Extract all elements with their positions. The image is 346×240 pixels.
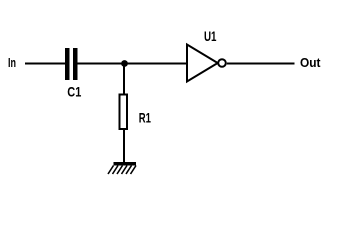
wire (25, 63, 66, 65)
inverter U1 (187, 28, 226, 82)
node Out (300, 55, 321, 70)
resistor R1 (120, 95, 152, 130)
capacitor C1 (65, 48, 81, 99)
svg-text:C1: C1 (67, 83, 81, 99)
node junction (121, 60, 128, 67)
wire (78, 63, 125, 65)
wire (123, 64, 125, 95)
node In (8, 55, 16, 70)
svg-text:Out: Out (300, 55, 321, 70)
wire (125, 63, 188, 65)
svg-text:R1: R1 (139, 110, 151, 126)
svg-text:In: In (8, 55, 16, 70)
ground (108, 162, 136, 174)
wire (227, 63, 295, 65)
svg-text:U1: U1 (204, 28, 217, 44)
wire (123, 129, 125, 162)
